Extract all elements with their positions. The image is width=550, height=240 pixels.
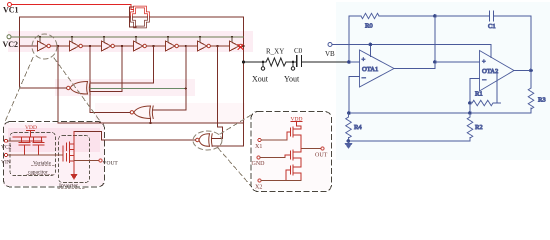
wire to OTA2 + input [435,61,480,63]
wire: G3 output long left [74,132,196,140]
svg-text:VOUT: VOUT [103,161,119,167]
svg-text:C0: C0 [294,47,303,55]
tap wires down from inverter outputs [57,46,59,123]
terminal Xout [262,62,264,67]
inverter U3 [102,41,134,51]
resistor R_XY [266,58,286,66]
ground [347,140,350,143]
wire OTA1 inverting input [349,77,360,114]
PMOS M1 (inset2) [287,126,301,142]
VDD bar (inset2) [291,122,302,127]
callout diagonal left [6,58,34,121]
wire VC1 to transmission gate (red) [12,4,132,6]
svg-text:OTA1: OTA1 [362,66,378,73]
svg-text:Xout: Xout [252,75,269,84]
ground (inset1) [73,166,75,174]
wire into OTA1 [349,61,360,63]
NMOS M3 (inset2) [286,164,301,181]
VDD supply bar [27,131,35,138]
inverter U6 [198,41,230,51]
right vertical rail [530,16,532,113]
junction dots on inverter outputs [57,45,245,47]
feedback rail R0 [379,16,435,69]
inverter U7 [230,41,244,51]
svg-text:R2: R2 [475,124,483,131]
wire OTA2 output [514,70,531,72]
wire: right vertical x=245.8 down to output line [243,17,245,146]
wire: G2 top input to x=185.8 [153,89,186,111]
svg-text:R3: R3 [538,97,546,104]
svg-text:R4: R4 [354,124,362,131]
resistor R1 [469,102,472,105]
callout diagonals to inset2 [220,115,251,134]
svg-text:X2: X2 [255,185,262,191]
callout lens around inverter U1 [32,34,57,59]
wire: feedback vertical left x=19.5 [19,17,21,88]
NMOS M2 (inset2) [285,149,301,165]
wire: long bottom line y=123 [58,122,244,124]
XNOR gate G2 [130,106,153,119]
terminal VC2 [7,35,11,39]
node / OUT wire [300,142,302,149]
terminal VIN (inset1) [5,154,8,157]
svg-text:VC1: VC1 [3,6,19,15]
XNOR gate G3 [196,134,213,147]
terminal Yout [292,62,294,67]
wire: output line to OTA1 [244,61,267,63]
terminal VC1 [8,3,12,7]
inset2 dashed border [251,112,332,192]
terminal VC2 (inset1) [5,139,8,142]
wire OTA2 inverting input [470,79,480,114]
svg-text:−: − [362,74,367,83]
inverter chain wire [20,45,38,47]
resistor R2 [467,113,473,141]
resistor R3 [528,88,534,109]
XNOR gate G1 [67,82,91,95]
resistor R0 [361,13,379,18]
inverter (inset1): NMOS [67,132,75,166]
wire OTA1 output [394,68,435,70]
op-amp OTA2 [480,51,515,92]
svg-text:C1: C1 [488,23,496,30]
wire: G2 output left to x=90 [90,112,130,114]
wire C0 to OTA1 [302,61,353,63]
inner dashed box: variable capacitor [10,133,56,176]
wire VB bias rail [332,45,491,58]
wire: G1 top input [90,82,154,84]
inverter U1 [38,41,70,51]
wire: VC2 rail (olive) [11,36,244,38]
wire R_XY to C0 [286,61,297,63]
bottom wire R2 to ground [349,140,471,142]
wire: G3 top input [212,127,222,139]
svg-text:R1: R1 [475,91,483,98]
wire: G2 bottom input stub [150,119,152,124]
capacitor C1 [435,15,531,17]
output wire to VOUT [74,160,99,162]
svg-text:−: − [482,76,487,85]
svg-text:+: + [362,57,366,64]
callout diagonal right [54,58,100,121]
svg-text:X1: X1 [255,144,262,150]
svg-text:VC2: VC2 [1,145,12,151]
variable capacitor MOS pair [13,137,46,155]
svg-text:Yout: Yout [284,75,300,84]
svg-text:GND: GND [252,161,266,167]
svg-text:R_XY: R_XY [266,48,284,56]
terminal VOUT [99,159,102,162]
inverter U2 [70,41,102,51]
junction OTA1 out [434,15,437,18]
svg-text:R0: R0 [365,23,373,30]
inverter U4 [134,41,166,51]
op-amp OTA1 [360,50,395,87]
terminal GND [257,156,260,159]
inset1 dashed border [4,122,105,188]
wire: TG through-wire [20,16,244,18]
wire: G3 bottom input [212,145,243,147]
red X marker [238,45,243,50]
inverter U5 [166,41,198,51]
wire: G1 output continues right (green) [90,88,186,90]
svg-text:VIN: VIN [1,160,11,166]
capacitor C0 [297,56,302,67]
svg-text:OUT: OUT [315,153,328,159]
terminal VB [328,43,332,47]
wire: G1 bottom input [90,91,122,93]
inverter (inset1): PMOS [63,142,74,161]
svg-text:VC2: VC2 [3,40,19,49]
svg-text:VB: VB [325,50,335,58]
inner dashed box: inverter [59,136,90,183]
callout lens around gate G3 [193,131,222,150]
svg-text:+: + [482,59,486,66]
wire: G1 output to left feedback [20,87,67,89]
terminal X2 [258,179,261,182]
wire: VC2 taps down to inverters [40,37,232,42]
svg-text:OTA2: OTA2 [482,68,498,75]
terminal X1 [258,139,261,142]
bottom rail [349,112,531,114]
resistor R4 [346,113,352,141]
